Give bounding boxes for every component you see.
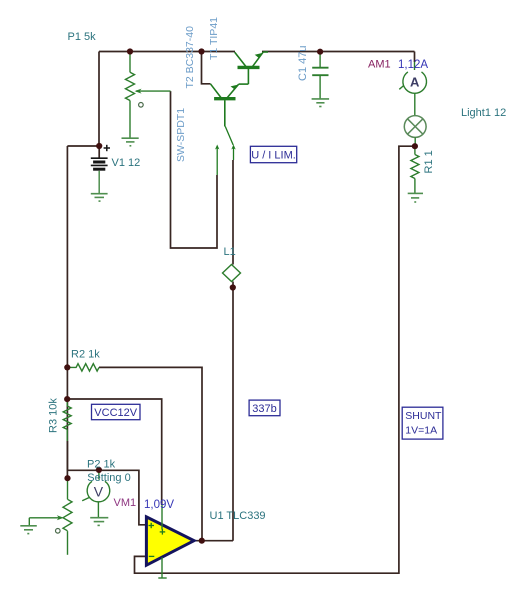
battery V1 bbox=[91, 158, 108, 169]
switch SW-SPDT1 bbox=[217, 127, 233, 176]
ammeter AM1 bbox=[414, 62, 416, 70]
svg-text:T1 TIP41: T1 TIP41 bbox=[208, 17, 220, 60]
svg-text:U / I LIM.: U / I LIM. bbox=[251, 150, 296, 162]
svg-text:R1 1: R1 1 bbox=[423, 150, 435, 173]
voltmeter VM1 bbox=[98, 470, 100, 480]
potentiometer P2 bbox=[29, 478, 72, 555]
wire V1 top lead bbox=[98, 146, 100, 158]
svg-text:1,12A: 1,12A bbox=[398, 59, 428, 71]
wire P1 wiper U-loop to switch left contact bbox=[171, 91, 218, 248]
ground at P2 wiper bbox=[20, 526, 37, 534]
ground below P1 bbox=[122, 138, 139, 146]
svg-text:SW-SPDT1: SW-SPDT1 bbox=[175, 108, 187, 162]
svg-text:T2 BC337-40: T2 BC337-40 bbox=[184, 26, 196, 89]
svg-text:P1 5k: P1 5k bbox=[68, 31, 97, 43]
wire V1 plus to left rail bbox=[67, 145, 99, 147]
svg-text:V1 12: V1 12 bbox=[112, 157, 141, 169]
T1 emitter arrowhead bbox=[255, 53, 263, 58]
plus sign at V1 bbox=[104, 145, 110, 151]
wire opamp minus input to shunt sense bbox=[135, 146, 415, 573]
svg-text:VM1: VM1 bbox=[114, 497, 137, 509]
switch left contact arrow bbox=[215, 145, 219, 150]
wire ammeter drop bbox=[414, 52, 416, 63]
wire L1 bottom to opamp output bbox=[232, 282, 234, 541]
switch right contact arrow bbox=[231, 145, 235, 150]
svg-text:1,09V: 1,09V bbox=[144, 499, 174, 511]
opamp power plus mark bbox=[160, 529, 166, 534]
wire R3 bottom to P2 node bbox=[66, 441, 68, 470]
transistor T2 BC337-40 bbox=[210, 84, 248, 127]
wire left rail bbox=[66, 146, 68, 478]
opamp minus input mark bbox=[149, 555, 155, 557]
P1 wiper open terminal o bbox=[139, 103, 144, 108]
svg-text:R2 1k: R2 1k bbox=[71, 349, 100, 361]
wire top rail right segment bbox=[262, 51, 415, 53]
op-amp U1 TLC339 bbox=[146, 517, 194, 565]
resistor R2 bbox=[67, 364, 99, 371]
P2 wiper arrowhead bbox=[57, 515, 64, 520]
svg-text:A: A bbox=[410, 75, 420, 90]
box SHUNT 1V=1A bbox=[402, 407, 443, 439]
svg-text:337b: 337b bbox=[252, 403, 276, 415]
current source L1 diamond bbox=[223, 265, 241, 282]
box U/I LIM. bbox=[250, 146, 296, 162]
wire P2 node to opamp plus input bbox=[67, 470, 146, 525]
svg-text:C1 47u: C1 47u bbox=[297, 46, 309, 81]
V1 bottom lead bbox=[98, 171, 100, 193]
svg-text:P2 1k: P2 1k bbox=[87, 459, 116, 471]
opamp V+ pin bbox=[161, 505, 163, 530]
T2 emitter arrowhead bbox=[231, 85, 239, 90]
ground below V1 bbox=[91, 194, 108, 201]
svg-text:Light1 12: Light1 12 bbox=[461, 107, 506, 119]
wire left drop to V1 bbox=[98, 52, 100, 147]
box VCC12V bbox=[92, 404, 141, 419]
opamp V- pin bbox=[161, 557, 163, 577]
wire top rail left segment bbox=[99, 51, 235, 53]
wire opamp output to limit line bbox=[194, 540, 233, 542]
svg-text:1V=1A: 1V=1A bbox=[405, 425, 437, 437]
capacitor C1 bbox=[312, 52, 328, 99]
transistor T1 TIP41 bbox=[235, 52, 268, 84]
svg-text:U1 TLC339: U1 TLC339 bbox=[210, 510, 266, 522]
wire R2 to output pullup bbox=[99, 367, 202, 540]
box 337b bbox=[249, 400, 280, 416]
ground below C1 bbox=[312, 99, 330, 107]
svg-text:Setting 0: Setting 0 bbox=[87, 472, 130, 484]
wire T2 collector branch bbox=[202, 52, 211, 84]
wire switch right contact down to L1 bbox=[232, 160, 234, 265]
P2 open terminal o bbox=[56, 529, 61, 534]
potentiometer P1 bbox=[126, 52, 171, 139]
wire VCC node to opamp V+ bbox=[67, 399, 162, 505]
lamp Light1 bbox=[414, 93, 416, 115]
opamp plus input mark bbox=[149, 523, 155, 528]
ground below R1 bbox=[408, 193, 423, 202]
P1 wiper arrowhead bbox=[135, 89, 142, 94]
svg-text:V: V bbox=[94, 484, 104, 500]
resistor R3 bbox=[63, 399, 71, 441]
svg-text:VCC12V: VCC12V bbox=[94, 407, 137, 419]
svg-text:AM1: AM1 bbox=[368, 59, 391, 71]
ground below VM1 bbox=[90, 518, 108, 526]
svg-text:SHUNT: SHUNT bbox=[405, 410, 442, 422]
svg-text:L1: L1 bbox=[224, 246, 236, 258]
resistor R1 bbox=[411, 146, 419, 193]
svg-text:R3 10k: R3 10k bbox=[48, 398, 60, 433]
